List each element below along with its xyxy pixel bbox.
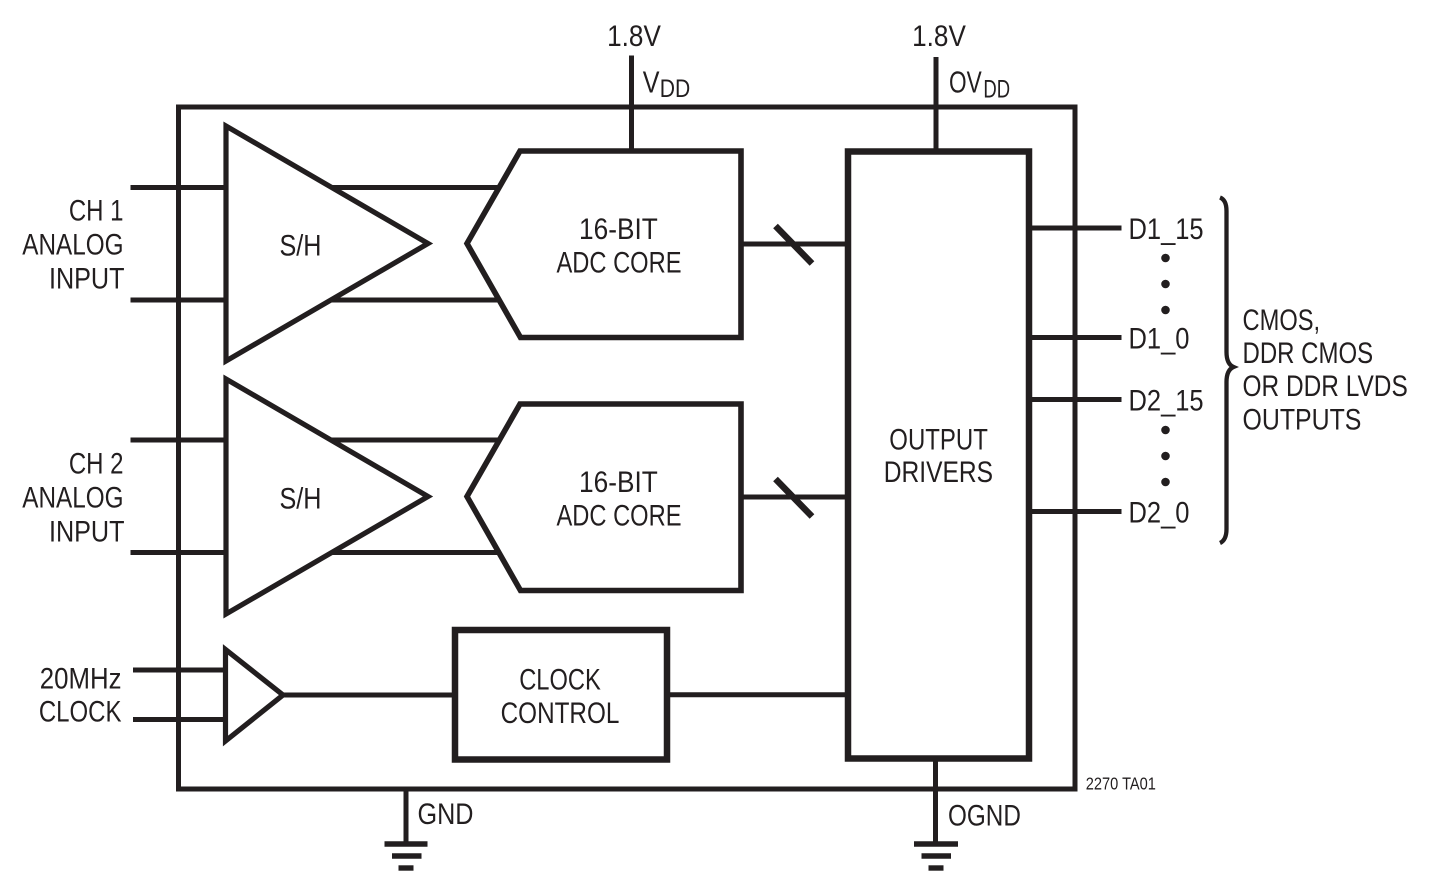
bus slash 1 bbox=[776, 226, 813, 264]
wire D1_15 output bbox=[1029, 226, 1122, 231]
svg-text:V: V bbox=[643, 64, 660, 99]
svg-text:ANALOG: ANALOG bbox=[22, 480, 123, 514]
wire clock control to output drivers bbox=[665, 692, 850, 697]
op-amp S/H 2 bbox=[226, 379, 428, 614]
block CLOCK CONTROL bbox=[455, 630, 667, 760]
block 16-BIT ADC CORE 2 bbox=[467, 404, 741, 591]
svg-text:ANALOG: ANALOG bbox=[22, 227, 123, 261]
wire GND stub bbox=[404, 789, 409, 844]
svg-text:DD: DD bbox=[983, 75, 1010, 103]
svg-text:CONTROL: CONTROL bbox=[501, 696, 620, 730]
svg-text:S/H: S/H bbox=[280, 481, 322, 515]
wire bus ADC2 to output drivers bbox=[741, 495, 850, 500]
svg-text:ADC CORE: ADC CORE bbox=[556, 246, 681, 279]
ellipsis dots channel 1 bbox=[1161, 254, 1170, 315]
ground symbol GND bbox=[385, 844, 428, 868]
clock buffer triangle bbox=[226, 650, 284, 742]
svg-text:CLOCK: CLOCK bbox=[39, 694, 122, 728]
wire D1_0 output bbox=[1029, 335, 1122, 340]
svg-text:CH 2: CH 2 bbox=[69, 446, 124, 480]
svg-text:16-BIT: 16-BIT bbox=[579, 211, 658, 245]
wire VDD supply stub bbox=[629, 56, 634, 154]
wire D2_15 output bbox=[1029, 397, 1122, 402]
wire CH1 +input bbox=[131, 185, 503, 190]
svg-text:2270 TA01: 2270 TA01 bbox=[1086, 775, 1156, 795]
ground symbol OGND bbox=[914, 844, 958, 868]
svg-text:CMOS,: CMOS, bbox=[1243, 303, 1321, 336]
svg-text:OR DDR LVDS: OR DDR LVDS bbox=[1243, 369, 1408, 403]
wire CH2 +input bbox=[131, 438, 503, 443]
svg-text:ADC CORE: ADC CORE bbox=[556, 499, 681, 532]
svg-text:OUTPUT: OUTPUT bbox=[889, 422, 988, 456]
bus slash 2 bbox=[776, 479, 813, 517]
svg-text:D1_15: D1_15 bbox=[1129, 212, 1204, 245]
svg-text:OGND: OGND bbox=[948, 798, 1021, 832]
svg-text:DDR CMOS: DDR CMOS bbox=[1243, 335, 1374, 369]
svg-text:CH 1: CH 1 bbox=[69, 193, 124, 227]
svg-text:CLOCK: CLOCK bbox=[519, 663, 601, 696]
block 16-BIT ADC CORE 1 bbox=[467, 151, 741, 338]
svg-text:D1_0: D1_0 bbox=[1129, 322, 1190, 355]
wire clock input top bbox=[133, 668, 228, 673]
wire D2_0 output bbox=[1029, 509, 1122, 514]
wire clock buffer to clock control bbox=[283, 693, 457, 698]
wire OVDD supply stub bbox=[934, 57, 939, 154]
brace outputs bbox=[1220, 198, 1234, 544]
wire CH1 -input bbox=[131, 298, 503, 303]
svg-text:OV: OV bbox=[949, 64, 982, 99]
svg-text:DD: DD bbox=[660, 74, 690, 102]
svg-text:GND: GND bbox=[418, 797, 474, 831]
svg-text:16-BIT: 16-BIT bbox=[579, 464, 658, 498]
svg-text:INPUT: INPUT bbox=[49, 262, 125, 296]
wire OGND stub bbox=[933, 759, 938, 844]
wire clock input bottom bbox=[133, 717, 228, 722]
svg-text:DRIVERS: DRIVERS bbox=[884, 454, 993, 488]
wire CH2 -input bbox=[131, 550, 503, 555]
svg-text:INPUT: INPUT bbox=[49, 515, 125, 549]
svg-text:1.8V: 1.8V bbox=[607, 19, 661, 52]
op-amp S/H 1 bbox=[226, 126, 428, 361]
svg-text:20MHz: 20MHz bbox=[40, 662, 122, 695]
block OUTPUT DRIVERS bbox=[848, 152, 1029, 759]
ellipsis dots channel 2 bbox=[1161, 426, 1170, 487]
wire bus ADC1 to output drivers bbox=[741, 242, 850, 247]
svg-text:D2_0: D2_0 bbox=[1129, 496, 1190, 529]
chip outline box bbox=[179, 107, 1076, 789]
svg-text:OUTPUTS: OUTPUTS bbox=[1243, 402, 1362, 436]
svg-text:S/H: S/H bbox=[280, 228, 322, 262]
svg-text:D2_15: D2_15 bbox=[1129, 384, 1204, 417]
svg-text:1.8V: 1.8V bbox=[912, 19, 966, 52]
